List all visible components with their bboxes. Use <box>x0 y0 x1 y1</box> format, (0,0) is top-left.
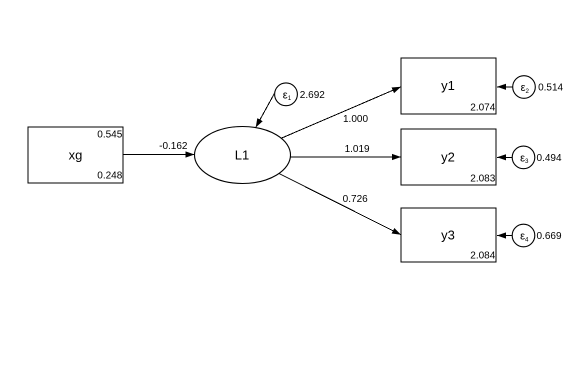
box y3 <box>401 208 496 262</box>
wire L1 to y3 <box>279 174 401 235</box>
wire e1 to L1 <box>256 94 275 128</box>
svg-text:2.074: 2.074 <box>470 102 495 113</box>
wire e3 to y2 <box>497 156 513 158</box>
svg-text:1.019: 1.019 <box>345 144 370 155</box>
box xg <box>28 127 123 183</box>
svg-text:2.692: 2.692 <box>300 90 325 101</box>
svg-text:0.669: 0.669 <box>537 231 562 242</box>
wire L1 to y1 <box>281 87 401 138</box>
svg-text:L1: L1 <box>235 148 249 163</box>
svg-text:y1: y1 <box>441 78 455 93</box>
svg-text:xg: xg <box>69 148 83 163</box>
box y2 <box>401 129 496 185</box>
wire L1 to y2 <box>291 156 402 158</box>
wire xg to L1 <box>123 154 195 156</box>
error circle e4 <box>512 224 535 247</box>
error circle e3 <box>512 146 535 169</box>
box y1 <box>401 58 496 114</box>
svg-text:-0.162: -0.162 <box>159 141 188 152</box>
svg-text:0.514: 0.514 <box>538 82 563 93</box>
error circle e2 <box>513 76 536 99</box>
svg-text:0.248: 0.248 <box>97 171 122 182</box>
svg-text:2.084: 2.084 <box>470 250 495 261</box>
svg-text:0.726: 0.726 <box>343 194 368 205</box>
wire e4 to y3 <box>497 235 513 237</box>
svg-text:1.000: 1.000 <box>343 114 368 125</box>
wire e2 to y1 <box>497 86 513 88</box>
svg-text:y3: y3 <box>441 227 455 242</box>
svg-text:0.494: 0.494 <box>537 153 562 164</box>
error circle e1 <box>275 83 298 106</box>
svg-text:y2: y2 <box>441 149 455 164</box>
svg-text:2.083: 2.083 <box>470 173 495 184</box>
ellipse L1 <box>195 127 291 184</box>
svg-text:0.545: 0.545 <box>97 130 122 141</box>
